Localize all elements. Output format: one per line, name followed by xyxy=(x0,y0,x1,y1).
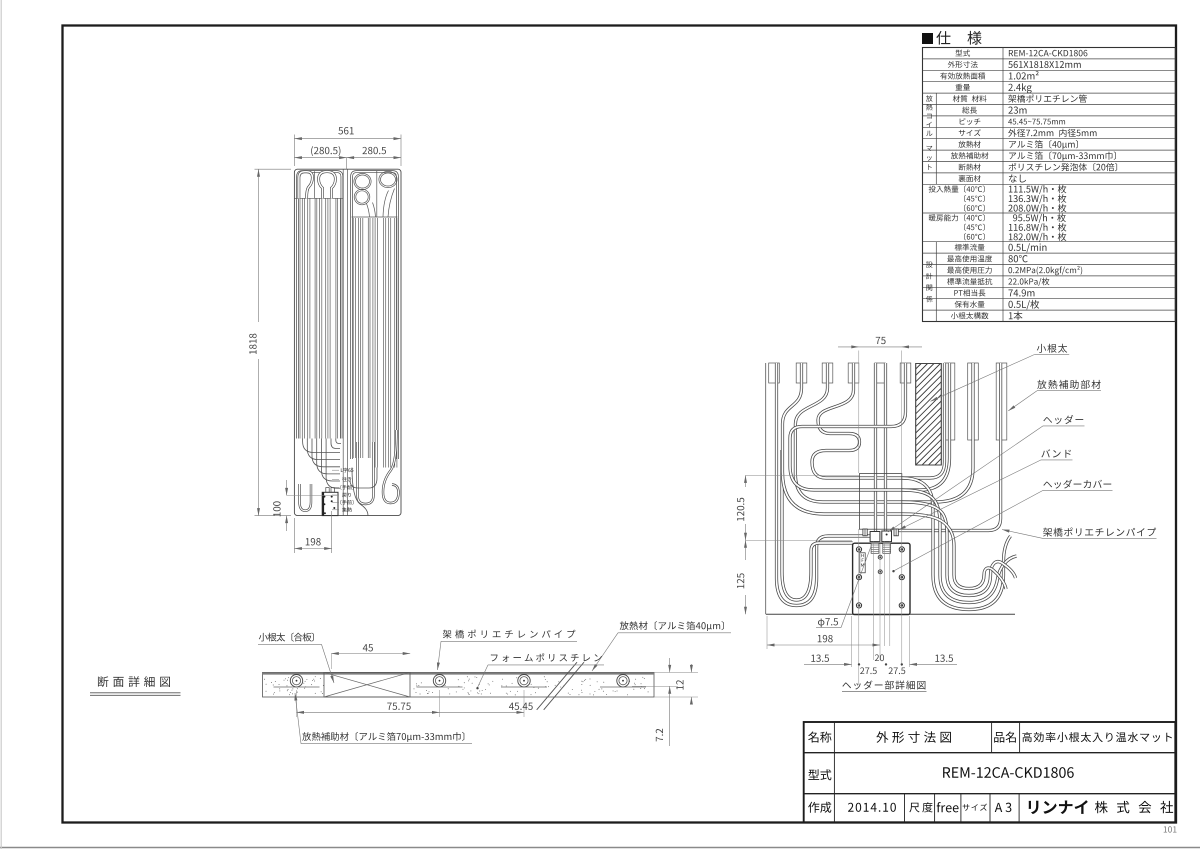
dimension 198 text xyxy=(306,538,321,545)
callout 小根太 xyxy=(1037,344,1067,353)
detail cover corner extension lines downward xyxy=(858,529,860,685)
cross-section label 小根太(合板) xyxy=(259,633,314,642)
callout バンド xyxy=(1041,449,1071,457)
title block row lines xyxy=(804,752,1176,754)
dimension (280.5) text xyxy=(311,146,340,156)
plan header connection block xyxy=(322,492,338,515)
dimension 20 text (detail) xyxy=(875,654,884,661)
cross-section label 架橋ポリエチレンパイプ xyxy=(443,630,576,639)
title block REM-12CA-CKD1806 xyxy=(943,767,1074,778)
plan right half pipe envelope xyxy=(352,172,398,459)
detail pipe s7 arc to horizontal y490 xyxy=(902,363,950,490)
title block サイズ xyxy=(963,804,987,811)
detail pipes descending into header ports xyxy=(874,363,877,531)
detail S+U bundle pipe 2 xyxy=(902,490,1017,603)
dimension 120.5 text xyxy=(737,498,744,521)
spec table row 暖房能力 (3 lines) xyxy=(929,214,985,221)
title block 高効率小根太入り温水マット xyxy=(1022,732,1172,742)
title block 2014.10 xyxy=(848,803,896,812)
title block 品名 xyxy=(994,732,1016,743)
detail view title ヘッダー部詳細図 xyxy=(842,680,925,689)
detail header cover rectangle xyxy=(859,474,901,530)
dimension dots on 13.5 line xyxy=(858,663,860,665)
callout 放熱補助部材 xyxy=(1037,380,1100,389)
title block 作成 xyxy=(808,802,831,813)
page left edge line xyxy=(0,0,2,849)
detail port center lines downward xyxy=(872,542,874,660)
plan left half loop area bottom line xyxy=(294,197,343,199)
detail pipe s6 loop left to horizontal y490 xyxy=(790,363,906,490)
title block 尺度 xyxy=(909,802,932,812)
dimension 561 line xyxy=(294,138,401,140)
cross-section aluminium strips under pipes xyxy=(274,686,320,688)
dimension 198 (detail) line xyxy=(767,644,880,646)
detail pipe s1 to big left U to left port xyxy=(777,363,871,606)
dimension 100 extension line xyxy=(287,494,338,496)
cross-section title 断面詳細図 xyxy=(98,676,170,687)
detail hatched joist 小根太 xyxy=(916,364,942,466)
plan left bottom U loop xyxy=(300,484,312,511)
dimension 120.5 line xyxy=(745,475,747,487)
dimension 280.5 line xyxy=(294,157,401,159)
cross-section top aluminium foil band xyxy=(263,672,655,674)
dimension 1818 text xyxy=(249,334,256,354)
cross-section label フォームポリスチレン xyxy=(491,653,602,662)
cross-section label 放熱材(アルミ箔40μm) xyxy=(620,621,724,631)
detail inner left U pipe xyxy=(782,450,853,600)
plan tiny label pointer lines xyxy=(332,469,339,471)
plan mat center divider xyxy=(342,169,344,515)
plan left bottom nested return bends xyxy=(303,439,340,453)
detail S+U bundle pipe 1 (outer) xyxy=(902,478,1011,610)
dimension 198 (detail) extension line xyxy=(766,616,768,649)
plan right half loop area bottom line xyxy=(352,216,398,218)
detail pipe s2 jog down to horizontal y514 xyxy=(783,363,903,514)
spec table row lines xyxy=(923,58,1176,60)
cross-section label 放熱補助材(アルミ箔70μm-33mm巾) xyxy=(302,732,464,742)
plan right half S-loop 2 upper ring xyxy=(379,171,397,187)
dimension 1818 line xyxy=(258,169,260,322)
cross-section dimension 75.75 xyxy=(296,690,298,717)
spec table rows 設計関係 labels and values xyxy=(955,244,985,251)
spec table row 投入熱量 (3 lines) xyxy=(929,185,985,192)
spec table outer border xyxy=(923,48,1176,322)
dimension 198 (detail) text xyxy=(818,635,833,642)
detail pipe s8 arc to horizontal y502 xyxy=(902,363,973,502)
plan right bottom S loop xyxy=(383,430,399,503)
plan right bottom curves to header xyxy=(350,468,377,489)
title block 名称 xyxy=(808,732,831,743)
plan right half S-loop 1 upper ring xyxy=(354,173,371,189)
plan tiny callout labels beside header xyxy=(341,468,353,473)
title block 株式会社 xyxy=(1095,801,1173,813)
title block 型式 xyxy=(808,769,831,780)
cross-section foam stipple dots xyxy=(515,676,518,679)
cross-section dimension 12 xyxy=(654,671,698,673)
dimension 120.5 extension lines xyxy=(746,474,860,476)
spec table label/value divider xyxy=(1002,48,1004,322)
dimension 280.5 text xyxy=(362,147,386,154)
page bottom edge line xyxy=(0,847,1200,849)
callout ヘッダーカバー xyxy=(1043,480,1111,489)
plan left half pipe envelope xyxy=(298,172,342,439)
dimension 125 line xyxy=(745,540,747,560)
callout ヘッダー xyxy=(1043,415,1083,424)
detail header block xyxy=(853,543,910,614)
cross-section pipe circles xyxy=(290,675,302,687)
detail band clips xyxy=(863,529,867,536)
plan right half S-loop 2 tails xyxy=(383,191,389,218)
plan left half loop sub-divider xyxy=(314,171,316,198)
spec table vertical group label 設計関係 xyxy=(926,262,933,268)
plan right half straight pipe runs xyxy=(352,218,354,458)
cross-section dimension 7.2 xyxy=(632,685,678,687)
dimension 75 line xyxy=(838,346,922,348)
plan right half loop area sub-divider xyxy=(376,170,378,217)
plan right half S-loop 1 lower ring xyxy=(354,189,370,205)
plan right half S-loop 1 tails xyxy=(373,203,376,218)
dimension 75 text xyxy=(876,337,886,344)
detail aluminium strip stubs xyxy=(769,363,780,383)
dimension 75 extension lines xyxy=(858,351,860,474)
cross-section break lines xyxy=(537,662,577,710)
callout 架橋ポリエチレンパイプ xyxy=(1043,528,1156,537)
dimension 100 line and arrows xyxy=(286,480,288,495)
plan right bottom U loop xyxy=(358,442,374,504)
detail header small center screws xyxy=(878,555,882,559)
detail mat bottom baseline xyxy=(766,613,1015,615)
cross-section dimension 45.45 xyxy=(523,690,525,717)
spec table vertical group label 放熱コイル xyxy=(926,95,933,101)
detail pipe s4 snake with hairpin to horizontal y478 xyxy=(812,363,902,478)
dimension phi7.5 text and leader xyxy=(818,618,838,627)
dimension 198 extension lines xyxy=(293,518,295,553)
plan left bottom inner curves to header xyxy=(331,439,340,449)
title block outer border xyxy=(804,722,1176,822)
detail vertical label on header xyxy=(860,553,865,573)
plan left half balloon loop 1 xyxy=(299,172,313,199)
title block リンナイ logo xyxy=(1029,800,1088,814)
cross-section joist box with X xyxy=(324,672,410,697)
spec table vertical group label マット xyxy=(927,146,933,151)
title block column lines xyxy=(833,722,835,822)
plan header block left dark edge xyxy=(322,492,324,515)
spec header black square xyxy=(922,33,933,44)
plan header screw dots xyxy=(323,496,325,498)
dimension 13.5 right (detail) xyxy=(910,663,958,665)
plan mat outline xyxy=(294,169,401,515)
dimension 100 text xyxy=(273,501,280,516)
dimension 125 text xyxy=(737,573,744,588)
dimension 27.5 texts (detail) xyxy=(860,667,877,674)
title block free xyxy=(937,802,959,812)
cross-section strip outline xyxy=(263,672,655,697)
plan left half keyhole loop 2 xyxy=(319,172,336,199)
dimension 1818 extension lines xyxy=(255,168,292,170)
spec table group dividers xyxy=(935,93,937,184)
page number 101 xyxy=(1164,826,1177,832)
detail S+U bundle pipe 3 xyxy=(902,502,1016,596)
cross-section dimension 45 xyxy=(331,653,410,655)
dimension 13.5 left (detail) xyxy=(804,663,852,665)
detail header block screws xyxy=(856,547,861,552)
spec table rows 1-12 labels and values xyxy=(956,50,971,57)
title block 外形寸法図 xyxy=(876,731,951,743)
spec header text 仕様 xyxy=(936,31,981,45)
detail pipe s9 elbow to right port xyxy=(898,363,1001,531)
dimension 561 text xyxy=(338,127,353,134)
detail S+U bundle pipe 4 (inner) xyxy=(902,514,1006,589)
detail pipe s3 jog down to horizontal y502 xyxy=(795,363,902,502)
detail header ports xyxy=(870,532,880,542)
title block A3 xyxy=(995,803,1012,812)
plan header nipple squares xyxy=(326,488,329,493)
dimension 561 extension lines xyxy=(293,135,295,167)
plan left half straight pipe runs xyxy=(299,198,301,438)
detail threaded nipples xyxy=(871,543,879,553)
detail mat left edge xyxy=(765,363,767,614)
detail pipe wrapping joist bottom to horizontal y478 xyxy=(902,363,945,478)
dimension 198 line xyxy=(294,548,331,550)
